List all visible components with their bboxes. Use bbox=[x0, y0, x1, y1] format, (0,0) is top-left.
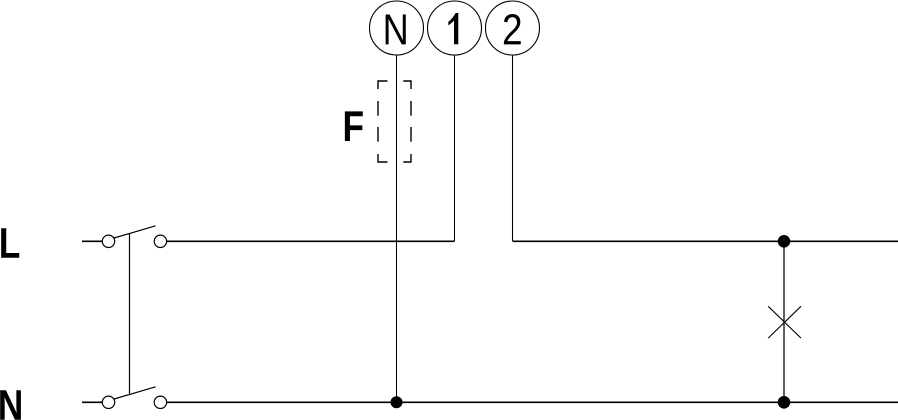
terminal N bbox=[370, 1, 424, 55]
switch S1 pole B blade bbox=[114, 387, 155, 399]
terminal 1 bbox=[428, 1, 482, 55]
wire N line right segment bbox=[167, 401, 898, 403]
switch S1 mechanical link bbox=[129, 234, 131, 394]
label N bbox=[0, 390, 21, 420]
label L bbox=[1, 228, 19, 258]
switch S1 pole A blade bbox=[114, 226, 155, 238]
switch S1 pole A contact left bbox=[102, 235, 114, 247]
switch S1 pole B contact left bbox=[102, 396, 114, 408]
wire L line right segment from terminal 2 bbox=[513, 240, 898, 242]
wire lamp drop bbox=[783, 241, 785, 402]
terminal 2 bbox=[486, 1, 540, 55]
switch S1 pole B contact right bbox=[154, 396, 166, 408]
node junction of lamp drop and N line bbox=[778, 396, 791, 409]
lamp X symbol bbox=[768, 306, 801, 338]
wire from terminal 2 to L line right segment bbox=[512, 55, 514, 241]
node junction of lamp drop and L line bbox=[778, 235, 791, 248]
label F bbox=[345, 111, 363, 141]
wire neutral drop from terminal N bbox=[396, 55, 398, 402]
wire N line left lead bbox=[82, 401, 102, 403]
node junction of neutral drop and N line bbox=[391, 396, 403, 408]
switch S1 pole A contact right bbox=[154, 235, 166, 247]
wire from terminal 1 to L line bbox=[454, 55, 456, 241]
fuse F dashed box bbox=[378, 81, 411, 162]
wire L line left lead bbox=[82, 240, 102, 242]
wire L line middle segment to terminal 1 bbox=[167, 240, 455, 242]
